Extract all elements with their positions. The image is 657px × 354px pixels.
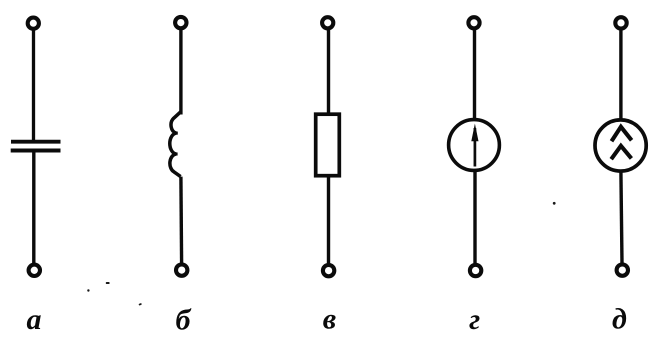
svg-text:а: а bbox=[27, 303, 42, 336]
svg-text:г: г bbox=[469, 303, 480, 336]
svg-text:в: в bbox=[323, 303, 336, 336]
svg-text:б: б bbox=[176, 304, 192, 337]
svg-text:д: д bbox=[612, 303, 627, 336]
